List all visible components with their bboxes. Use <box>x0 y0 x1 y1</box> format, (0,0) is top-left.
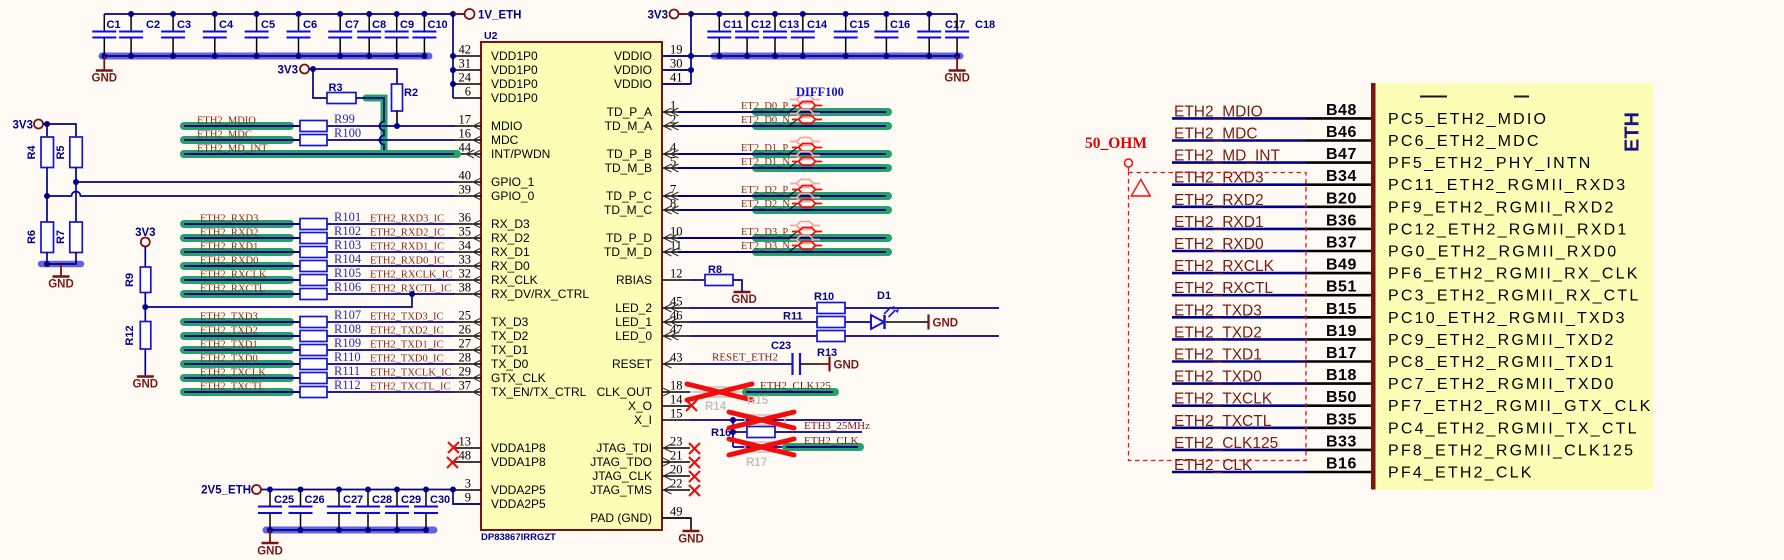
svg-text:PF6_ETH2_RGMII_RX_CLK: PF6_ETH2_RGMII_RX_CLK <box>1388 266 1640 283</box>
svg-text:JTAG_TDI: JTAG_TDI <box>596 441 652 455</box>
svg-text:C15: C15 <box>850 19 870 31</box>
no-ERC marker JTAG row 30 <box>689 471 700 482</box>
pin 11 (TD_M_D) of U2 <box>604 239 690 260</box>
svg-text:40: 40 <box>459 169 472 183</box>
svg-text:ETH2_RXCTL_IC: ETH2_RXCTL_IC <box>370 284 451 295</box>
junctions VDDIO <box>688 53 694 73</box>
diff pair directive ET2_D1_N <box>787 152 822 170</box>
svg-text:RX_D3: RX_D3 <box>491 217 530 231</box>
capacitor C1 <box>92 14 120 56</box>
wire R8 to gnd <box>733 280 742 292</box>
resistor R3 <box>327 82 356 104</box>
svg-text:9: 9 <box>465 491 471 505</box>
svg-text:B34: B34 <box>1326 168 1357 185</box>
ground at C17 <box>944 56 970 85</box>
wire net ETH2_RXD0 <box>184 262 454 270</box>
wire LED_0 <box>690 335 999 337</box>
pin 9 (VDDA2P5) of U2 <box>453 491 546 512</box>
wire D1 to gnd <box>886 321 928 323</box>
wire R12 to gnd <box>144 349 146 377</box>
clipped title marks <box>1420 96 1529 98</box>
no-ERC marker pin 48 <box>447 457 458 468</box>
svg-text:ETH2_MDIO: ETH2_MDIO <box>197 116 256 127</box>
svg-text:TD_M_B: TD_M_B <box>605 161 652 175</box>
junction R2-MDIO <box>394 123 400 129</box>
svg-text:3V3: 3V3 <box>278 64 298 76</box>
svg-text:PC8_ETH2_RGMII_TXD1: PC8_ETH2_RGMII_TXD1 <box>1388 354 1616 371</box>
svg-text:B18: B18 <box>1326 367 1357 384</box>
pin 44 (INT/PWDN) of U2 <box>453 141 550 162</box>
svg-text:TD_M_A: TD_M_A <box>605 119 652 133</box>
svg-text:41: 41 <box>670 71 683 85</box>
svg-text:R109: R109 <box>334 336 361 350</box>
junctions 2V5 rails <box>267 487 456 534</box>
diff pair directive ET2_D3_N <box>787 236 822 254</box>
pin 29 (GTX_CLK) of U2 <box>453 365 546 386</box>
diff pair directive ET2_D0_P <box>787 96 822 114</box>
svg-text:ET2_D3_N: ET2_D3_N <box>741 241 790 252</box>
svg-text:17: 17 <box>459 113 472 127</box>
svg-text:VDD1P0: VDD1P0 <box>491 49 538 63</box>
pin 40 (GPIO_1) of U2 <box>453 169 535 190</box>
svg-text:PF5_ETH2_PHY_INTN: PF5_ETH2_PHY_INTN <box>1388 155 1593 172</box>
ground R12 <box>133 377 159 391</box>
pin 42 (VDD1P0) of U2 <box>453 43 538 64</box>
svg-text:B36: B36 <box>1326 212 1357 229</box>
capacitor C29 <box>385 490 421 531</box>
ground pin 49 <box>662 518 704 546</box>
svg-text:VDDA1P8: VDDA1P8 <box>491 455 546 469</box>
wire RESET <box>690 363 793 365</box>
svg-text:ETH2_MDC: ETH2_MDC <box>197 130 252 141</box>
wire down to R4 <box>46 124 48 137</box>
svg-text:GND: GND <box>731 294 757 306</box>
svg-text:R105: R105 <box>334 266 361 280</box>
svg-text:R13: R13 <box>817 347 837 359</box>
svg-text:DIFF100: DIFF100 <box>796 85 844 99</box>
svg-text:B17: B17 <box>1326 345 1357 362</box>
ground R6 R7 <box>48 264 74 291</box>
svg-text:ETH2_RXD0_IC: ETH2_RXD0_IC <box>370 256 444 267</box>
svg-text:3V3: 3V3 <box>13 119 33 131</box>
svg-text:16: 16 <box>459 127 472 141</box>
net highlight ETH2_CLK <box>786 443 860 451</box>
svg-text:RX_D0: RX_D0 <box>491 259 530 273</box>
svg-text:13: 13 <box>459 435 472 449</box>
resistor R8 <box>705 264 733 286</box>
pin 24 (VDD1P0) of U2 <box>453 71 538 92</box>
svg-text:29: 29 <box>459 365 472 379</box>
input arrows on left pins <box>466 122 481 396</box>
svg-text:30: 30 <box>670 57 683 71</box>
svg-text:ET2_D1_N: ET2_D1_N <box>741 157 790 168</box>
svg-text:C2: C2 <box>146 19 160 31</box>
capacitor C5 <box>245 14 275 56</box>
net highlight ETH2_CLK125 <box>746 388 835 396</box>
pin 48 (VDDA1P8) of U2 <box>453 449 546 470</box>
capacitor C28 <box>356 490 392 531</box>
svg-text:18: 18 <box>670 379 683 393</box>
wire R3 to MD_INT with hops <box>356 98 384 154</box>
wire ETH2_CLK <box>733 446 786 448</box>
svg-text:C13: C13 <box>779 19 799 31</box>
svg-text:R3: R3 <box>329 82 343 94</box>
pin 25 (TX_D3) of U2 <box>453 309 529 330</box>
svg-text:31: 31 <box>459 57 472 71</box>
no-ERC cross on X_I <box>729 412 794 428</box>
pin 39 (GPIO_0) of U2 <box>453 183 535 204</box>
pin 18 (CLK_OUT) of U2 <box>597 379 690 400</box>
svg-text:GTX_CLK: GTX_CLK <box>491 371 546 385</box>
svg-text:36: 36 <box>459 211 472 225</box>
wire net ETH2_TXD1 <box>184 346 454 354</box>
svg-text:ETH2_TXD0_IC: ETH2_TXD0_IC <box>370 354 444 365</box>
svg-text:VDDIO: VDDIO <box>614 77 652 91</box>
svg-text:R107: R107 <box>334 308 361 322</box>
svg-text:RBIAS: RBIAS <box>616 273 652 287</box>
pin 21 (JTAG_TDO) of U2 <box>590 449 690 470</box>
svg-text:ETH2_RXD2: ETH2_RXD2 <box>200 228 258 239</box>
capacitor C2 <box>119 14 160 56</box>
resistor R6 <box>26 222 54 253</box>
svg-text:PC4_ETH2_RGMII_TX_CTL: PC4_ETH2_RGMII_TX_CTL <box>1388 420 1639 437</box>
svg-text:VDDA1P8: VDDA1P8 <box>491 441 546 455</box>
svg-text:C17: C17 <box>945 19 965 31</box>
svg-text:ETH2_TXD2: ETH2_TXD2 <box>1174 324 1262 341</box>
svg-text:24: 24 <box>459 71 472 85</box>
svg-text:ETH2_RXD2: ETH2_RXD2 <box>1174 192 1264 209</box>
pin 32 (RX_CLK) of U2 <box>453 267 538 288</box>
svg-text:VDDA2P5: VDDA2P5 <box>491 497 546 511</box>
wire 2V5 bottom bus <box>270 529 426 531</box>
wire net ETH2_MDC <box>184 136 454 144</box>
resistor R109 <box>300 345 327 356</box>
resistor R104 <box>300 261 327 272</box>
capacitor C27 <box>327 490 363 531</box>
svg-text:R100: R100 <box>334 126 361 140</box>
svg-text:TD_M_C: TD_M_C <box>604 203 652 217</box>
svg-text:LED_0: LED_0 <box>615 329 652 343</box>
svg-text:C8: C8 <box>372 19 386 31</box>
svg-text:VDDA2P5: VDDA2P5 <box>491 483 546 497</box>
svg-text:ETH2_RXD0: ETH2_RXD0 <box>200 256 258 267</box>
wire net ET2_D0_P <box>678 108 888 116</box>
svg-text:TX_D3: TX_D3 <box>491 315 529 329</box>
svg-text:ETH2_CLK: ETH2_CLK <box>1174 457 1253 474</box>
svg-text:TX_D0: TX_D0 <box>491 357 529 371</box>
wire 3V3 to R9 <box>144 247 146 268</box>
svg-text:R102: R102 <box>334 224 361 238</box>
svg-text:R106: R106 <box>334 280 361 294</box>
ghost resistor R15 <box>745 395 785 425</box>
svg-text:R112: R112 <box>334 378 361 392</box>
svg-text:C4: C4 <box>219 19 234 31</box>
svg-text:JTAG_TMS: JTAG_TMS <box>590 483 652 497</box>
svg-text:49: 49 <box>670 505 683 519</box>
svg-text:C18: C18 <box>975 19 995 31</box>
svg-text:3V3: 3V3 <box>648 9 668 21</box>
wire R6 R7 to gnd <box>47 253 76 265</box>
svg-text:PC11_ETH2_RGMII_RXD3: PC11_ETH2_RGMII_RXD3 <box>1388 177 1627 194</box>
wire to RXCTL_IC <box>145 294 412 307</box>
wire net ETH2_CLK to port <box>1172 471 1371 474</box>
svg-text:TD_P_C: TD_P_C <box>606 189 652 203</box>
capacitor C3 <box>161 14 191 56</box>
svg-text:R4: R4 <box>26 145 38 160</box>
svg-text:RX_D1: RX_D1 <box>491 245 530 259</box>
capacitor C16 <box>874 14 910 56</box>
svg-text:R108: R108 <box>334 322 361 336</box>
wire LED_2 <box>690 307 999 309</box>
wire R2 to MDIO <box>396 111 398 126</box>
svg-text:D1: D1 <box>877 290 891 302</box>
svg-text:R5: R5 <box>55 145 67 159</box>
svg-text:ETH: ETH <box>1622 112 1644 152</box>
svg-text:20: 20 <box>670 463 683 477</box>
svg-text:RX_D2: RX_D2 <box>491 231 530 245</box>
pin 12 (RBIAS) of U2 <box>616 267 690 288</box>
svg-text:X_O: X_O <box>628 399 652 413</box>
svg-text:R9: R9 <box>124 273 136 287</box>
junction R4 <box>44 193 50 199</box>
wire net ETH2_RXCTL <box>184 290 454 298</box>
svg-text:RX_CLK: RX_CLK <box>491 273 538 287</box>
svg-text:C3: C3 <box>177 19 191 31</box>
capacitor C23 <box>771 340 800 375</box>
svg-text:R2: R2 <box>404 87 418 99</box>
resistor R11 <box>783 311 845 328</box>
resistor R12 <box>124 322 151 350</box>
svg-text:R99: R99 <box>334 112 355 126</box>
svg-text:2V5_ETH: 2V5_ETH <box>201 485 251 497</box>
svg-text:C16: C16 <box>890 19 910 31</box>
wire net ETH2_RXD2 <box>184 234 454 242</box>
ground D1 <box>929 315 959 330</box>
svg-text:VDD1P0: VDD1P0 <box>491 91 538 105</box>
pin 33 (RX_D0) of U2 <box>453 253 530 274</box>
svg-text:MDC: MDC <box>491 133 519 147</box>
svg-text:ET2_D2_N: ET2_D2_N <box>741 199 790 210</box>
capacitor C14 <box>791 14 828 56</box>
svg-text:RESET_ETH2: RESET_ETH2 <box>712 352 778 364</box>
ground R8 <box>731 292 757 306</box>
capacitor C12 <box>735 14 771 56</box>
svg-text:LED_2: LED_2 <box>615 301 652 315</box>
svg-text:GND: GND <box>48 279 74 291</box>
svg-text:ETH2_TXD0: ETH2_TXD0 <box>200 354 258 365</box>
pin 35 (RX_D2) of U2 <box>453 225 530 246</box>
wire net ETH2_CLK125 to port <box>1172 449 1371 452</box>
svg-text:GPIO_0: GPIO_0 <box>491 189 535 203</box>
svg-text:C23: C23 <box>771 340 791 352</box>
svg-text:GND: GND <box>257 546 283 558</box>
svg-text:B51: B51 <box>1326 279 1357 296</box>
svg-text:R11: R11 <box>783 311 803 323</box>
capacitor C30 <box>414 490 450 531</box>
svg-text:19: 19 <box>670 43 683 57</box>
3V3 bus bar highlight <box>714 53 960 60</box>
svg-text:C29: C29 <box>401 494 421 506</box>
svg-text:37: 37 <box>459 379 472 393</box>
svg-text:21: 21 <box>670 449 683 463</box>
capacitor C11 <box>707 14 742 56</box>
svg-text:C26: C26 <box>305 494 325 506</box>
svg-text:PC3_ETH2_RGMII_RX_CTL: PC3_ETH2_RGMII_RX_CTL <box>1388 288 1641 305</box>
no-ERC cross on CLK_OUT <box>687 384 752 400</box>
pin 7 (TD_P_C) of U2 <box>606 183 690 204</box>
svg-text:VDDIO: VDDIO <box>614 63 652 77</box>
wire net ETH2_TXD3 to port <box>1172 316 1371 319</box>
svg-text:ETH2_RXCTL: ETH2_RXCTL <box>200 284 265 295</box>
50_OHM rule circle <box>1125 159 1133 167</box>
wire net ETH2_TXD1 to port <box>1172 360 1371 363</box>
svg-text:VDDIO: VDDIO <box>614 49 652 63</box>
svg-text:ETH2_RXD0: ETH2_RXD0 <box>1174 236 1264 253</box>
svg-text:C10: C10 <box>428 19 448 31</box>
svg-text:ETH2_MD_INT: ETH2_MD_INT <box>197 144 268 155</box>
wire R16 out <box>775 431 862 433</box>
power port 1V_ETH <box>453 9 521 21</box>
svg-text:ETH2_RXCLK: ETH2_RXCLK <box>1174 258 1275 275</box>
resistor R107 <box>300 317 327 328</box>
wire net ETH2_MDIO to port <box>1172 117 1371 120</box>
svg-text:ETH2_TXD2_IC: ETH2_TXD2_IC <box>370 326 444 337</box>
no-ERC marker JTAG row 31 <box>689 485 700 496</box>
junction at RXCTL_IC <box>409 291 415 297</box>
svg-text:R17: R17 <box>746 457 767 469</box>
wire net ETH2_MDIO <box>184 122 454 130</box>
wire net ET2_D2_N <box>678 206 888 214</box>
op-amp U2 body (DP83867 PHY) <box>481 42 662 530</box>
svg-text:C25: C25 <box>274 494 294 506</box>
resistor R7 <box>55 222 82 253</box>
svg-text:INT/PWDN: INT/PWDN <box>491 147 550 161</box>
svg-text:ETH2_TXD0: ETH2_TXD0 <box>1174 369 1262 386</box>
svg-text:ETH2_TXD2: ETH2_TXD2 <box>200 326 258 337</box>
pin 8 (TD_M_C) of U2 <box>604 197 690 218</box>
svg-text:PC7_ETH2_RGMII_TXD0: PC7_ETH2_RGMII_TXD0 <box>1388 376 1616 393</box>
svg-text:ETH2_TXCTL: ETH2_TXCTL <box>1174 413 1272 430</box>
svg-text:48: 48 <box>459 449 472 463</box>
wire 3V3 to VDDIO pins <box>690 14 692 84</box>
svg-text:23: 23 <box>670 435 683 449</box>
svg-text:PAD (GND): PAD (GND) <box>590 511 652 525</box>
svg-text:TX_D1: TX_D1 <box>491 343 529 357</box>
resistor R99 <box>300 121 327 132</box>
svg-text:ETH2_RXD1: ETH2_RXD1 <box>200 242 258 253</box>
wire net ETH2_TXD2 <box>184 332 454 340</box>
junction R5 <box>73 179 79 185</box>
svg-text:CLK_OUT: CLK_OUT <box>597 385 653 399</box>
svg-text:GND: GND <box>133 379 159 391</box>
svg-text:C5: C5 <box>261 19 275 31</box>
svg-text:PC5_ETH2_MDIO: PC5_ETH2_MDIO <box>1388 111 1548 128</box>
wire R9 to R12 <box>144 293 146 322</box>
svg-text:ETH2_TXCLK: ETH2_TXCLK <box>1174 391 1273 408</box>
svg-text:C1: C1 <box>107 19 121 31</box>
svg-text:R12: R12 <box>124 325 136 345</box>
resistor R100 <box>300 135 327 146</box>
50_OHM rule triangle <box>1131 180 1150 197</box>
svg-text:ETH2_TXD1_IC: ETH2_TXD1_IC <box>370 340 444 351</box>
svg-text:GND: GND <box>944 73 970 85</box>
junction R3-MD_INT <box>381 151 387 157</box>
wire VDDIO stubs <box>662 56 691 84</box>
svg-text:TD_P_B: TD_P_B <box>607 147 652 161</box>
svg-text:R15: R15 <box>747 395 769 407</box>
capacitor C4 <box>203 14 234 56</box>
junction R16 <box>730 429 736 435</box>
wire net ET2_D0_N <box>678 122 888 130</box>
capacitor C17 <box>917 14 965 56</box>
wire net ET2_D1_P <box>678 150 888 158</box>
svg-text:C12: C12 <box>751 19 771 31</box>
capacitor C25 <box>258 490 294 531</box>
wire X_I <box>690 419 862 421</box>
ground R13 <box>830 357 860 372</box>
wire net ETH2_RXD0 to port <box>1172 250 1371 253</box>
svg-text:PG0_ETH2_RGMII_RXD0: PG0_ETH2_RGMII_RXD0 <box>1388 244 1618 261</box>
pin 37 (TX_EN/TX_CTRL) of U2 <box>453 379 587 400</box>
svg-text:GND: GND <box>933 318 959 330</box>
resistor R106 <box>300 289 327 300</box>
resistor R111 <box>300 373 327 384</box>
svg-text:ETH2_TXCTL: ETH2_TXCTL <box>200 382 265 393</box>
svg-text:PC6_ETH2_MDC: PC6_ETH2_MDC <box>1388 133 1541 150</box>
pin 30 (VDDIO) of U2 <box>614 57 690 78</box>
svg-text:ETH2_RXD3: ETH2_RXD3 <box>200 214 258 225</box>
svg-text:ETH2_TXCLK_IC: ETH2_TXCLK_IC <box>370 368 452 379</box>
capacitor C8 <box>357 14 386 56</box>
wire net ET2_D3_N <box>678 248 888 256</box>
wire net ET2_D1_N <box>678 164 888 172</box>
wire LED_1 left <box>690 321 871 323</box>
power port 3V3 at R9 <box>135 227 155 247</box>
capacitor C18 <box>945 14 995 56</box>
no-ERC marker JTAG row 29 <box>689 457 700 468</box>
wire net ETH2_RXCTL to port <box>1172 294 1371 297</box>
svg-text:JTAG_TDO: JTAG_TDO <box>590 455 652 469</box>
pin 45 (LED_2) of U2 <box>615 295 690 316</box>
wire net ETH2_TXD0 <box>184 360 454 368</box>
pin 14 (X_O) of U2 <box>628 393 690 414</box>
pin 3 (VDDA2P5) of U2 <box>453 477 546 498</box>
svg-text:ETH2_MD_INT: ETH2_MD_INT <box>1174 148 1280 165</box>
resistor R112 <box>300 387 327 398</box>
pin 28 (TX_D0) of U2 <box>453 351 529 372</box>
svg-text:JTAG_CLK: JTAG_CLK <box>592 469 652 483</box>
resistor R2 <box>392 84 419 111</box>
svg-text:VDD1P0: VDD1P0 <box>491 77 538 91</box>
wire net ETH2_TXD3 <box>184 318 454 326</box>
no-ERC marker pin 13 <box>448 442 459 453</box>
svg-text:ETH2_RXCLK: ETH2_RXCLK <box>200 270 267 281</box>
no-ERC cross on ETH2_CLK <box>729 439 794 455</box>
50_OHM scope dashed box <box>1129 167 1307 461</box>
svg-text:PF4_ETH2_CLK: PF4_ETH2_CLK <box>1388 465 1534 482</box>
wire R5 to R7 <box>75 182 77 222</box>
svg-text:R111: R111 <box>334 364 360 378</box>
svg-text:C7: C7 <box>345 19 359 31</box>
svg-text:ETH2_MDC: ETH2_MDC <box>1174 126 1258 143</box>
capacitor C10 <box>412 14 447 56</box>
svg-text:ETH2_TXD1: ETH2_TXD1 <box>1174 347 1262 364</box>
svg-text:X_I: X_I <box>634 413 652 427</box>
svg-text:35: 35 <box>459 225 472 239</box>
no-ERC marker JTAG row 28 <box>689 443 700 454</box>
pin 15 (X_I) of U2 <box>634 407 690 428</box>
svg-text:U2: U2 <box>484 30 498 42</box>
